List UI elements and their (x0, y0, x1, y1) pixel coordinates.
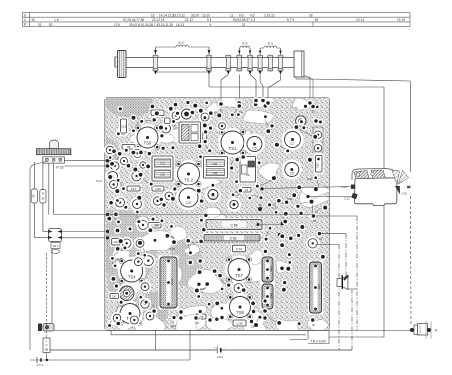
svg-text:S 2: S 2 (178, 41, 183, 45)
svg-text:28: 28 (195, 321, 199, 325)
rod end bracket (294, 51, 304, 77)
table row labels S C R (24, 13, 27, 26)
svg-text:C22: C22 (160, 162, 165, 166)
wire jack to motor line (54, 330, 410, 332)
ground return line (30, 359, 190, 361)
wire pot left terminal down (30, 161, 47, 350)
wire pot to S4 column (48, 163, 50, 215)
antenna coil former 3 (226, 55, 231, 74)
tuning gang vanes (354, 170, 386, 179)
switch S4 (48, 229, 62, 254)
pad 30 with label (258, 203, 262, 211)
svg-text:31: 31 (38, 23, 42, 27)
wire C54 to pad (257, 222, 284, 236)
svg-text:58: 58 (45, 348, 49, 352)
antenna coil former 8 (278, 55, 283, 74)
trimmer C14 terminal (260, 185, 355, 191)
small round components group (105, 109, 324, 326)
svg-text:C: C (45, 343, 47, 347)
svg-text:13 14: 13 14 (356, 18, 364, 22)
svg-text:+: + (214, 346, 216, 350)
copper trace pattern (105, 93, 331, 334)
antenna coil former 1 (153, 55, 158, 74)
svg-text:T3: T3 (238, 110, 242, 114)
svg-text:C23: C23 (160, 173, 165, 177)
switch S5 inline (31, 189, 37, 203)
capacitor C56 (195, 313, 208, 321)
antenna coil former 2 (206, 55, 211, 74)
antenna coil former 5 (248, 55, 253, 74)
junction C58 to ground line (46, 359, 48, 361)
transistor TS7 (225, 256, 253, 284)
svg-text:-: - (224, 346, 225, 350)
svg-text:30: 30 (258, 203, 262, 207)
component index table frame (23, 13, 411, 27)
electrolytic C58 box (43, 338, 50, 353)
svg-text:5 4: 5 4 (207, 18, 212, 22)
tuning gang capacitor body (352, 169, 397, 206)
wire pot to board lower (64, 165, 110, 167)
IF transformer S11 block (178, 121, 203, 145)
svg-text:T5: T5 (311, 110, 315, 114)
bus wire right vertical (383, 87, 385, 337)
capacitor C52 (203, 233, 262, 243)
svg-text:S 3: S 3 (242, 42, 247, 46)
wire coil tap 1 to board (221, 75, 228, 105)
svg-text:15: 15 (151, 13, 155, 17)
svg-text:11: 11 (230, 13, 234, 17)
svg-text:C 54: C 54 (230, 224, 237, 228)
capacitor C5 round (244, 134, 265, 155)
svg-text:C2: C2 (211, 195, 215, 199)
svg-text:T.R.4 1234: T.R.4 1234 (310, 340, 326, 344)
svg-text:C13: C13 (344, 197, 350, 201)
svg-text:13,10,12: 13,10,12 (173, 13, 186, 17)
wire under S2 coils (156, 71, 212, 73)
board edge entry pads left (106, 159, 109, 239)
wire board bottom to battery line (154, 330, 156, 350)
svg-text:57,26,43,77,56: 57,26,43,77,56 (123, 18, 144, 22)
antenna coil former 7 (268, 55, 273, 71)
wire S4 down to jack (51, 249, 53, 324)
wire coil tap 4 to board (260, 75, 263, 101)
capacitor C7 round (282, 129, 304, 151)
svg-text:TS6: TS6 (236, 310, 244, 315)
svg-text:C27: C27 (186, 201, 192, 205)
capacitor C54 (205, 218, 264, 231)
small rect right of S11 (203, 134, 207, 139)
svg-text:4,5 V: 4,5 V (37, 363, 44, 367)
svg-text:C6: C6 (290, 172, 294, 176)
solder pads (106, 100, 329, 329)
svg-text:R21: R21 (307, 177, 313, 181)
resistor R2 square (163, 117, 172, 126)
table row C numbers (32, 18, 406, 22)
svg-text:Y: Y (435, 328, 438, 333)
svg-text:R10: R10 (96, 179, 102, 183)
table row S numbers (151, 13, 313, 17)
earphone jack bottom left (38, 324, 54, 332)
capacitor C27 round (176, 185, 201, 210)
svg-text:C5: C5 (252, 146, 256, 150)
transistor TS1 (218, 128, 247, 157)
motor bracket line (430, 322, 432, 339)
small reference labels on board (117, 177, 313, 328)
svg-text:4,5V: 4,5V (217, 355, 223, 359)
svg-text:21 12: 21 12 (185, 18, 193, 22)
printed circuit board outline (105, 98, 330, 330)
svg-text:25: 25 (313, 219, 317, 223)
svg-text:S23: S23 (269, 266, 273, 272)
svg-text:39,42,8,10,34,38,7,43,15,11,35: 39,42,8,10,34,38,7,43,15,11,35 (129, 23, 173, 27)
resistor R6 (121, 143, 137, 151)
svg-text:TS9: TS9 (144, 140, 152, 145)
antenna coil former 6 (258, 55, 263, 74)
svg-text:C34: C34 (213, 162, 218, 166)
coil S2 symbol (154, 45, 211, 55)
svg-text:1-6: 1-6 (54, 18, 59, 22)
coil S3 symbol (238, 46, 251, 55)
svg-text:9: 9 (210, 23, 212, 27)
capacitor C10 vertical (314, 154, 324, 174)
gang trimmer screws (356, 172, 374, 176)
board bottom pads with numbers (193, 213, 322, 329)
wire bracket to board pads (302, 75, 313, 106)
svg-text:50: 50 (32, 18, 36, 22)
svg-text:12 6: 12 6 (114, 23, 120, 27)
top pad labels (219, 106, 315, 114)
wire S4 down to C58 (46, 253, 48, 360)
svg-text:5,7 5: 5,7 5 (287, 18, 294, 22)
wire board to right bus 1 (313, 216, 357, 331)
capacitor C51 (231, 244, 247, 254)
wire from coil S2 to bus (209, 72, 384, 87)
battery supply line (50, 349, 352, 351)
dial cord vertical (410, 81, 413, 324)
svg-text:C1: C1 (245, 188, 249, 192)
transistor TS9 (134, 124, 161, 151)
svg-text:C15: C15 (401, 192, 407, 196)
ferrite rod (126, 57, 294, 59)
svg-text:C 51: C 51 (236, 247, 243, 251)
oscillator coil S21 (159, 256, 179, 310)
IF coil S24 (308, 261, 323, 315)
capacitor block C22 C23 (151, 155, 175, 183)
svg-text:T1: T1 (219, 109, 223, 113)
svg-text:R11: R11 (288, 197, 293, 201)
svg-text:R 33: R 33 (56, 166, 63, 170)
volume control thumbwheel R33 (36, 140, 71, 155)
svg-text:R: R (42, 192, 44, 196)
svg-text:18: 18 (315, 18, 319, 22)
svg-text:S22: S22 (269, 293, 273, 299)
capacitor C6 round (282, 160, 302, 180)
wire through S5 (34, 162, 48, 238)
trimmer top mid with dark core (180, 107, 194, 121)
wire board to speaker bottom (315, 245, 339, 351)
wire S4 to board upper (62, 231, 106, 233)
wire rod bracket to dial cord (296, 77, 410, 81)
svg-text:C 55: C 55 (236, 321, 243, 325)
svg-text:R17: R17 (200, 287, 206, 291)
svg-text:C 52: C 52 (230, 237, 237, 241)
svg-text:TS7: TS7 (235, 273, 243, 278)
left battery terminals (37, 357, 42, 363)
trimmer with dark core (296, 116, 306, 126)
capacitor C50 (110, 237, 121, 247)
svg-text:33,20: 33,20 (191, 13, 199, 17)
transistor TS5 (117, 301, 143, 327)
transistor TS4 (118, 257, 146, 285)
svg-text:21: 21 (242, 23, 246, 27)
extra small circles left column (104, 144, 148, 170)
wire pot terminal to board mid (54, 163, 105, 215)
IF coil S23 (261, 256, 275, 284)
svg-text:C17: C17 (131, 187, 137, 191)
antenna coil former 4 (237, 55, 242, 71)
svg-text:15,10: 15,10 (202, 13, 210, 17)
IF coil S22 (261, 283, 275, 311)
svg-text:28: 28 (309, 13, 313, 17)
speaker line up (351, 290, 353, 350)
wire S4 to board lower (62, 237, 106, 239)
R33 terminal bracket (43, 157, 65, 163)
svg-text:S 21: S 21 (170, 278, 174, 285)
capacitor C35 (151, 185, 166, 193)
svg-text:10: 10 (312, 323, 316, 327)
svg-text:TS4: TS4 (128, 274, 136, 279)
svg-text:52,54,55,57,1,3: 52,54,55,57,1,3 (233, 18, 255, 22)
svg-text:4,5: 4,5 (250, 13, 255, 17)
resistor R34 inline (40, 190, 46, 204)
wire board corner to bus lower (329, 336, 384, 338)
IF can footprint top right (313, 127, 323, 152)
wire through R34 (43, 162, 49, 232)
svg-text:S 1: S 1 (268, 42, 273, 46)
wire board bottom to ground line (189, 330, 191, 360)
wire pot to board upper (64, 160, 111, 162)
battery cell symbol (214, 346, 225, 354)
capacitor C59 (147, 221, 163, 230)
dashed trace under C52 (192, 242, 260, 244)
board top connection pads (218, 97, 319, 124)
svg-text:C24: C24 (213, 171, 218, 175)
label box verticals (308, 330, 329, 344)
transistor TS6 (227, 294, 254, 321)
frame line to type label (290, 339, 307, 341)
svg-text:18: 18 (251, 325, 255, 329)
capacitor C20 (150, 109, 166, 118)
svg-text:R36: R36 (169, 247, 175, 251)
svg-text:1 23,22: 1 23,22 (264, 13, 275, 17)
capacitor C55 (232, 319, 248, 328)
wire coil tap 2 to board (238, 75, 240, 107)
svg-text:C7: C7 (290, 142, 294, 146)
svg-text:6 8: 6 8 (239, 13, 244, 17)
dial pointer cord triangles (392, 170, 411, 195)
svg-text:C47: C47 (112, 295, 117, 298)
svg-text:T2: T2 (294, 106, 298, 110)
svg-text:R36: R36 (171, 324, 177, 328)
svg-text:23 12 19: 23 12 19 (152, 18, 165, 22)
svg-text:C59: C59 (154, 223, 160, 227)
capacitor C47 (109, 292, 121, 300)
svg-text:TS1: TS1 (229, 146, 237, 151)
svg-text:S4 2: S4 2 (53, 244, 59, 248)
wire board to speaker top (319, 234, 346, 276)
capacitor C21 (119, 118, 128, 135)
transistor TS2 (175, 160, 203, 188)
tuning pulley (115, 51, 126, 78)
wire coil tap 3 to board (250, 75, 256, 101)
capacitor C17 (126, 185, 142, 193)
motor / earpiece bottom right (410, 321, 431, 339)
table row R numbers (38, 22, 313, 27)
svg-text:82: 82 (49, 23, 53, 27)
capacitor C2 round (205, 187, 221, 203)
svg-text:S5: S5 (31, 194, 35, 198)
svg-text:R10: R10 (117, 257, 123, 261)
small cap round a (227, 197, 241, 211)
svg-text:C35: C35 (155, 187, 161, 191)
capacitor C1 (241, 186, 253, 194)
svg-text:C9: C9 (246, 173, 250, 177)
second bottom conductor (111, 331, 306, 335)
component block C8 C9 (239, 155, 258, 184)
capacitor block C34 C24 (202, 155, 229, 180)
wire coil tap 5 to board (268, 75, 281, 104)
speaker (337, 275, 349, 290)
coil S1 symbol (259, 46, 282, 55)
svg-text:S24: S24 (317, 284, 321, 290)
svg-text:C21: C21 (121, 124, 127, 128)
electrolytic with shaded ring (117, 284, 136, 303)
long trace across board (105, 214, 313, 216)
svg-text:C14: C14 (341, 185, 347, 189)
svg-text:33: 33 (319, 237, 323, 241)
svg-text:15 15: 15 15 (397, 18, 405, 22)
svg-text:TS 2: TS 2 (184, 177, 194, 182)
svg-text:C10: C10 (316, 163, 320, 168)
svg-text:16,13: 16,13 (176, 23, 184, 27)
wire speaker bottom to bus (348, 288, 357, 290)
left area small circles row (113, 147, 144, 211)
trimmer C13 terminal (306, 193, 357, 199)
